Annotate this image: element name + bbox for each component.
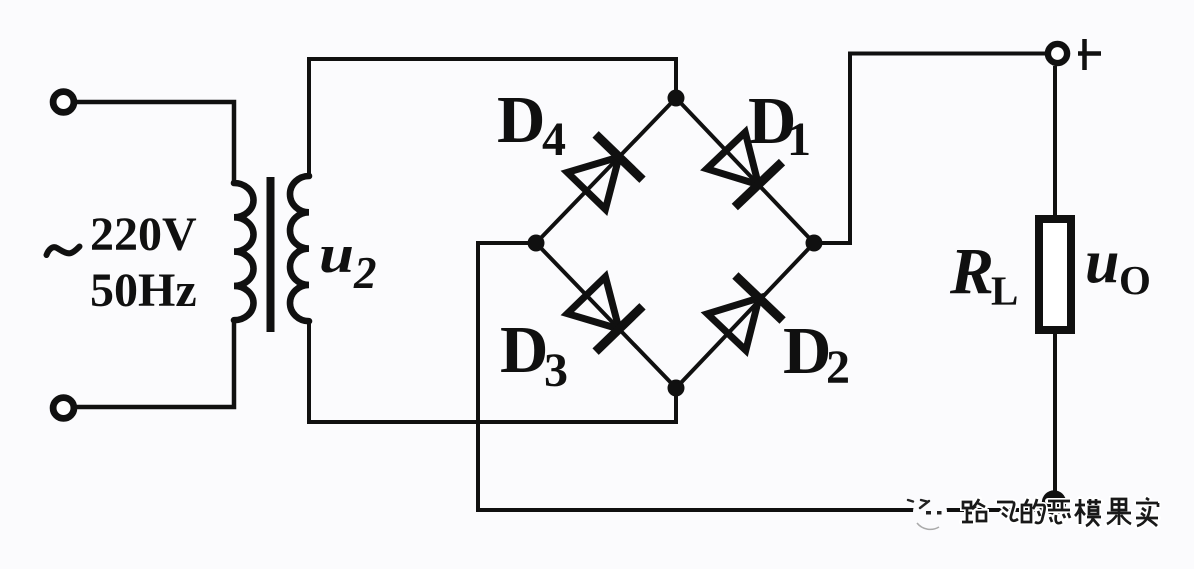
diode D4 [567, 134, 642, 209]
watermark text (vector strokes) [962, 498, 1158, 526]
wire primary bottom [77, 319, 234, 407]
terminal input top [53, 92, 74, 113]
svg-text:D: D [783, 314, 831, 388]
diode D1 [707, 132, 782, 207]
wire resistor to bottom node [1053, 330, 1057, 497]
wire plus terminal to resistor [1053, 66, 1057, 219]
plus sign [1078, 39, 1101, 70]
node top of bridge [668, 90, 685, 107]
wire bridge diamond [536, 98, 814, 388]
node left of bridge [528, 235, 545, 252]
svg-text:2: 2 [353, 248, 377, 298]
transformer core [267, 177, 275, 332]
svg-text:50Hz: 50Hz [90, 264, 197, 317]
terminal input bottom [53, 398, 74, 419]
svg-text:D: D [500, 313, 548, 387]
wire bridge right node to plus terminal [814, 54, 1045, 244]
wire secondary top [309, 59, 676, 177]
terminal output bottom dot [1042, 490, 1066, 514]
node right of bridge [806, 235, 823, 252]
terminal output plus [1048, 44, 1067, 63]
transformer primary winding [234, 183, 254, 320]
svg-text:2: 2 [826, 341, 850, 394]
wire primary top [77, 102, 234, 184]
svg-text:4: 4 [542, 113, 566, 166]
diode D2 [707, 276, 782, 351]
svg-text:D: D [497, 83, 545, 157]
svg-text:3: 3 [544, 344, 568, 397]
svg-text:R: R [949, 235, 994, 308]
svg-text:O: O [1119, 257, 1151, 303]
svg-text:220V: 220V [90, 208, 197, 261]
watermark logo emblem [908, 495, 947, 529]
wire secondary bottom to bridge bottom node [309, 320, 676, 422]
wire bridge left node to output minus [478, 243, 1053, 510]
node bottom of bridge [668, 380, 685, 397]
svg-text:1: 1 [787, 113, 811, 166]
watermark text ink strokes [962, 498, 1158, 526]
svg-text:L: L [991, 268, 1018, 314]
resistor RL body [1039, 219, 1071, 330]
tilde AC symbol [47, 247, 80, 256]
transformer secondary winding [290, 176, 309, 321]
svg-text:u: u [319, 224, 354, 284]
svg-text:u: u [1085, 229, 1119, 297]
diode D3 [567, 277, 642, 352]
